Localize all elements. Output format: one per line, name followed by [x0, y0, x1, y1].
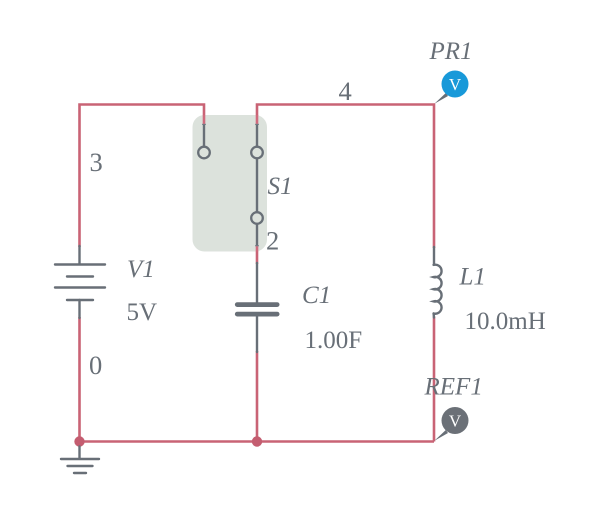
probe PR1 circle	[442, 71, 469, 98]
ground	[61, 447, 99, 474]
switch S1 common pin	[251, 212, 263, 224]
probe PR1 pointer	[434, 93, 448, 104]
svg-text:4: 4	[339, 76, 352, 106]
wire net 0: bottom rail	[80, 440, 435, 443]
pin tick common	[255, 245, 259, 247]
svg-text:1.00F: 1.00F	[305, 327, 363, 354]
svg-text:C1: C1	[302, 282, 331, 309]
junction dot (ground node)	[74, 436, 84, 446]
svg-text:S1: S1	[268, 173, 293, 200]
battery V1	[55, 246, 105, 318]
junction dot (capacitor bottom)	[252, 436, 262, 446]
wire net 4: switch right throw to inductor top	[257, 105, 434, 249]
svg-text:0: 0	[89, 350, 102, 380]
wire stub into switch left pin	[203, 115, 206, 124]
wire net 2: switch common to capacitor top	[256, 251, 259, 264]
wire net 0: capacitor bottom to bottom rail	[256, 351, 259, 442]
wire stub out of switch common pin	[256, 246, 259, 252]
switch S1 right throw pin	[256, 124, 258, 146]
probe REF1 pointer	[434, 430, 448, 441]
pin tick left throw	[202, 123, 206, 125]
svg-text:V1: V1	[127, 256, 155, 283]
svg-text:PR1: PR1	[429, 38, 473, 65]
svg-text:10.0mH: 10.0mH	[465, 308, 546, 335]
wire stub into switch right pin	[256, 115, 259, 124]
probe REF1 circle	[442, 407, 469, 434]
wire net 0: battery bottom down	[78, 317, 81, 442]
capacitor C1	[237, 263, 277, 352]
svg-text:3: 3	[90, 147, 103, 177]
svg-text:5V: 5V	[127, 299, 158, 326]
wire net 3: battery top to switch left throw	[80, 105, 205, 248]
svg-text:2: 2	[266, 226, 279, 256]
switch S1 left throw pin	[203, 124, 205, 146]
inductor L1	[434, 247, 442, 318]
switch S1 body	[193, 115, 268, 252]
wire net 0: inductor bottom down	[433, 317, 436, 442]
svg-text:V: V	[449, 75, 462, 94]
svg-text:V: V	[449, 411, 462, 430]
pin tick right throw	[255, 123, 259, 125]
switch S1 blade (closed to right throw)	[256, 159, 258, 212]
svg-text:L1: L1	[459, 264, 486, 291]
svg-text:REF1: REF1	[424, 374, 483, 401]
